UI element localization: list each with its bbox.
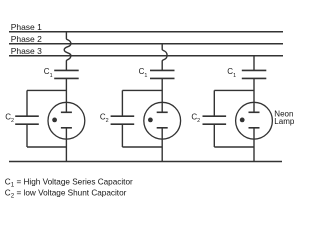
svg-text:Lamp: Lamp [274, 117, 295, 126]
wire: Phase 2 bus line [9, 43, 283, 45]
wire: branch A bottom wire from C2 to lamp lead [27, 146, 66, 148]
svg-text:C2: C2 [100, 113, 109, 125]
neon lamp DS2 gas dot [148, 118, 153, 123]
svg-text:C1: C1 [139, 67, 148, 79]
svg-text:C1 = High Voltage Series Capac: C1 = High Voltage Series Capacitor [5, 178, 133, 189]
neon lamp DS2 bottom electrode bar [157, 127, 168, 129]
neon lamp DS1 gas dot [52, 118, 57, 123]
wire: branch C from C1 down to lamp top electrode [253, 78, 255, 112]
wire: branch A C2 upper lead [26, 90, 28, 116]
wire: branch C bottom wire from C2 to lamp lead [214, 146, 254, 148]
neon lamp DS3 (branch C) envelope circle [236, 102, 273, 139]
wire: bottom return bus line [9, 161, 282, 163]
capacitor C2 (branch A) bottom plate [15, 123, 39, 125]
svg-text:C1: C1 [227, 67, 236, 79]
neon lamp DS3 bottom electrode bar [249, 127, 260, 129]
wire: branch C tap from Phase 3 [253, 56, 255, 71]
svg-text:Phase 3: Phase 3 [11, 46, 42, 56]
svg-text:C2: C2 [191, 113, 200, 125]
wire: branch A lamp bottom lead to bottom bus [65, 128, 67, 162]
capacitor C2 (branch B) bottom plate [111, 123, 135, 125]
capacitor C1 (branch A) bottom plate [54, 77, 78, 79]
wire: branch C lamp bottom lead to bottom bus [253, 128, 255, 162]
neon lamp DS2 (branch B) envelope circle [144, 102, 181, 139]
capacitor C1 (branch C) bottom plate [242, 77, 266, 79]
wire: Phase 3 bus line [9, 55, 283, 57]
capacitor C2 (branch B) top plate [111, 115, 135, 117]
svg-text:Phase 1: Phase 1 [11, 22, 42, 32]
wire: branch A tap from Phase 1 with hops over Phase 2 and Phase 3 [64, 32, 71, 71]
wire: branch C C2 upper lead [213, 90, 215, 116]
wire: branch B from C1 down to lamp top electrode [161, 78, 163, 112]
capacitor C2 (branch C) top plate [203, 115, 227, 117]
wire: branch B lamp bottom lead to bottom bus [161, 128, 163, 162]
neon lamp DS1 top electrode bar [61, 111, 72, 113]
neon lamp DS3 top electrode bar [249, 111, 260, 113]
capacitor C1 (branch B) bottom plate [150, 77, 175, 79]
wire: branch A from C1 down to lamp top electrode [65, 78, 67, 112]
wire: Phase 1 bus line [9, 31, 283, 33]
svg-text:Phase 2: Phase 2 [11, 34, 42, 44]
wire: branch B junction to C2 (horizontal) [122, 89, 162, 91]
wire: branch C junction to C2 (horizontal) [214, 89, 254, 91]
svg-text:C2 = low Voltage Shunt Capacit: C2 = low Voltage Shunt Capacitor [5, 189, 127, 200]
svg-text:C1: C1 [44, 67, 53, 79]
wire: branch B bottom wire from C2 to lamp lead [122, 146, 162, 148]
wire: branch C C2 lower lead [213, 124, 215, 147]
wire: branch B C2 lower lead [121, 124, 123, 147]
neon lamp DS1 bottom electrode bar [61, 127, 72, 129]
wire: branch A junction to C2 (horizontal) [27, 89, 66, 91]
wire: branch B C2 upper lead [121, 90, 123, 116]
neon lamp DS3 gas dot [240, 118, 245, 123]
capacitor C1 (branch A) top plate [54, 69, 78, 71]
capacitor C2 (branch A) top plate [15, 115, 39, 117]
neon lamp DS2 top electrode bar [157, 111, 168, 113]
wire: branch B tap from Phase 2 with hop over Phase 3 [162, 44, 167, 71]
capacitor C2 (branch C) bottom plate [203, 123, 227, 125]
capacitor C1 (branch B) top plate [150, 69, 175, 71]
capacitor C1 (branch C) top plate [242, 69, 266, 71]
neon lamp DS1 (branch A) envelope circle [48, 102, 85, 139]
svg-text:C2: C2 [5, 113, 14, 125]
wire: branch A C2 lower lead [26, 124, 28, 147]
